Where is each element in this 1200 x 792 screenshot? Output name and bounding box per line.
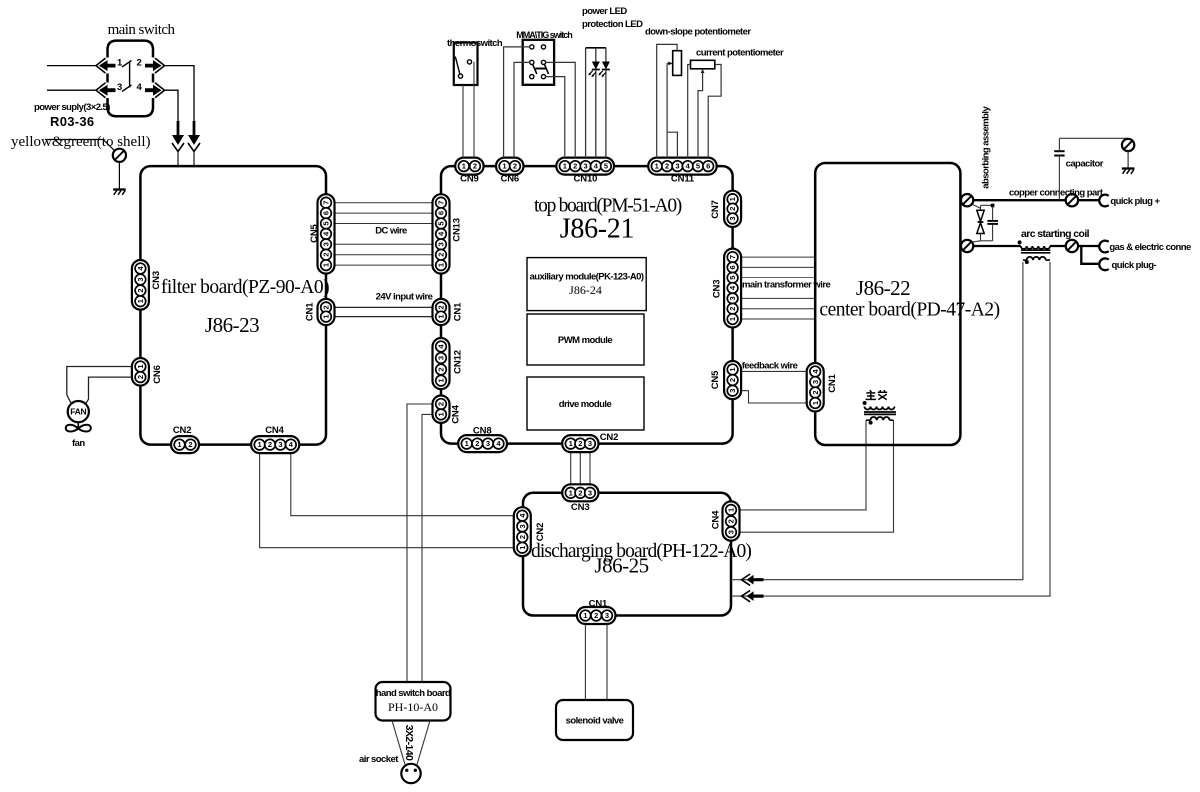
svg-text:CN8: CN8 — [473, 426, 492, 437]
svg-text:absorbing assembly: absorbing assembly — [981, 106, 992, 189]
svg-text:FAN: FAN — [70, 407, 86, 417]
wire branch to quick plug - — [1081, 246, 1100, 264]
PWM module — [527, 314, 644, 365]
svg-text:CN3: CN3 — [712, 280, 723, 299]
connector filter/CN2 — [171, 425, 199, 453]
wire center board to terminal T4 — [960, 245, 961, 247]
capacitor C1 — [1054, 138, 1064, 155]
cable taper to air socket — [392, 721, 430, 765]
connector top/CN3 — [712, 249, 742, 328]
ground capacitor — [1122, 169, 1135, 174]
wire arrow tails to board — [178, 151, 194, 165]
pot wiper — [701, 69, 705, 73]
svg-text:CN5: CN5 — [710, 370, 721, 389]
svg-text:arc starting coil: arc starting coil — [1021, 228, 1090, 240]
wire filter CN4 pin4 to discharging CN2 pin4 — [291, 453, 514, 516]
feedback wire 1 — [741, 370, 807, 372]
svg-text:CN6: CN6 — [501, 173, 520, 184]
svg-text:CN13: CN13 — [452, 218, 463, 242]
svg-text:2: 2 — [437, 253, 446, 257]
svg-text:CN9: CN9 — [460, 173, 479, 184]
svg-text:1: 1 — [518, 546, 527, 550]
svg-text:2: 2 — [665, 162, 669, 171]
svg-text:main transformer wire: main transformer wire — [742, 280, 830, 291]
svg-text:3: 3 — [136, 277, 145, 281]
power input arrow — [96, 83, 116, 98]
svg-text:filter board(PZ-90-A0): filter board(PZ-90-A0) — [161, 277, 329, 298]
wire CN6 pin1 to fan — [67, 367, 132, 404]
wire MMA switch to CN10 pin1 — [545, 77, 565, 158]
24V input wires — [335, 307, 433, 316]
svg-text:MMA\TIG switch: MMA\TIG switch — [516, 30, 572, 40]
connector filter/CN1 — [305, 299, 335, 325]
svg-text:copper connecting part: copper connecting part — [1009, 188, 1104, 199]
svg-text:CN2: CN2 — [600, 432, 619, 443]
protection LED D2 — [598, 48, 610, 158]
svg-text:thermoswitch: thermoswitch — [447, 38, 503, 49]
svg-text:2: 2 — [513, 162, 517, 171]
svg-text:PWM module: PWM module — [558, 335, 612, 346]
svg-text:R03-36: R03-36 — [50, 114, 94, 129]
top board J86-21 outline — [441, 166, 733, 444]
svg-text:CN2: CN2 — [173, 425, 192, 436]
svg-text:1: 1 — [177, 440, 181, 449]
connector CN10 — [556, 158, 614, 185]
svg-text:5: 5 — [728, 276, 737, 280]
svg-text:3: 3 — [728, 389, 737, 393]
svg-text:6: 6 — [706, 162, 710, 171]
svg-text:7: 7 — [437, 201, 446, 205]
connector CN11 — [648, 158, 717, 185]
svg-text:2: 2 — [437, 367, 446, 371]
connector CN12 — [433, 338, 464, 389]
terminal T2 copper connecting part — [1066, 194, 1078, 206]
svg-text:CN11: CN11 — [671, 173, 695, 184]
svg-text:3: 3 — [117, 82, 122, 93]
arrow into filter board left — [172, 121, 184, 152]
gas & electric connector symbol — [1099, 241, 1108, 253]
svg-text:yellow&green(to shell): yellow&green(to shell) — [11, 134, 151, 150]
wire to shell terminal — [45, 140, 115, 151]
svg-text:2: 2 — [268, 440, 272, 449]
svg-text:J86-24: J86-24 — [569, 283, 602, 297]
wire wiper to CN11 pin2 — [666, 63, 668, 158]
air socket — [401, 764, 420, 783]
connector filter/CN5 — [309, 194, 335, 273]
svg-text:1: 1 — [563, 162, 567, 171]
wire pot left to CN11 pin4 — [688, 65, 691, 159]
svg-text:gas & electric conne: gas & electric conne — [1109, 242, 1191, 253]
svg-text:CN4: CN4 — [451, 404, 462, 423]
svg-text:2: 2 — [728, 207, 737, 211]
fan propeller — [66, 422, 91, 431]
svg-text:auxiliary module(PK-123-A0): auxiliary module(PK-123-A0) — [530, 272, 644, 283]
connector disch/CN2 — [514, 507, 546, 556]
wire rail to CN10 pin3 — [585, 48, 587, 158]
svg-text:3: 3 — [605, 611, 609, 620]
svg-text:1: 1 — [437, 263, 446, 267]
svg-text:current potentiometer: current potentiometer — [696, 48, 784, 59]
arc coil secondary — [1023, 257, 1050, 264]
wire CN6 pin2 to fan — [86, 377, 132, 404]
svg-text:2: 2 — [322, 253, 331, 257]
svg-text:3: 3 — [437, 356, 446, 360]
connector disch/CN1 — [577, 598, 616, 624]
svg-text:1: 1 — [569, 439, 573, 448]
svg-text:PH-10-A0: PH-10-A0 — [388, 700, 438, 714]
auxiliary module J86-24 — [527, 258, 646, 311]
svg-text:3: 3 — [588, 439, 592, 448]
svg-text:CN4: CN4 — [265, 425, 284, 436]
wire filter CN4 pin1 to discharging CN2 pin1 — [260, 453, 514, 548]
switch output arrow — [145, 58, 165, 73]
svg-text:air socket: air socket — [359, 754, 399, 765]
svg-text:main switch: main switch — [108, 22, 176, 38]
svg-text:2: 2 — [727, 519, 736, 523]
main switch contacts — [122, 61, 132, 92]
svg-text:2: 2 — [573, 162, 577, 171]
svg-text:1: 1 — [465, 439, 469, 448]
svg-text:2: 2 — [475, 439, 479, 448]
connector CN7 — [710, 191, 741, 227]
svg-text:6: 6 — [437, 211, 446, 215]
switch output arrow — [145, 83, 165, 98]
shell terminal — [113, 149, 126, 162]
wire switch out row1 — [163, 66, 194, 121]
wire discharging CN4 pin1 to transformer — [740, 420, 866, 510]
absorbing assembly capacitor branch — [973, 204, 999, 242]
terminal T4 — [961, 240, 973, 252]
wire power input — [47, 65, 97, 67]
svg-text:3: 3 — [486, 439, 490, 448]
main switch body — [108, 41, 154, 117]
svg-text:1: 1 — [728, 367, 737, 371]
svg-text:down-slope potentiometer: down-slope potentiometer — [645, 27, 751, 38]
wire pot top to CN11 pin1 — [657, 44, 677, 158]
svg-text:fan: fan — [72, 438, 85, 449]
connector top/CN4 — [433, 396, 462, 424]
svg-text:CN12: CN12 — [453, 350, 464, 374]
connector disch/CN3 — [562, 484, 598, 513]
wire MMA switch to CN6 pin2 — [514, 62, 530, 158]
power input arrow — [96, 58, 116, 73]
svg-text:2: 2 — [136, 288, 145, 292]
svg-text:CN7: CN7 — [710, 200, 721, 219]
wire CN1 pin3 to solenoid valve — [606, 624, 608, 700]
arc coil core — [1021, 250, 1051, 253]
svg-text:2: 2 — [728, 307, 737, 311]
terminal T5 — [1066, 240, 1078, 252]
center board J86-22 outline — [815, 163, 960, 445]
wire thermoswitch to CN9 pin2 — [473, 62, 475, 158]
connector top/CN6 — [496, 158, 524, 185]
connector top/CN1 — [433, 299, 464, 325]
svg-text:J86-25: J86-25 — [594, 554, 648, 578]
discharging board J86-25 outline — [523, 493, 731, 616]
arrow into discharging board row1 — [742, 574, 764, 585]
svg-text:4: 4 — [137, 82, 143, 93]
svg-text:5: 5 — [604, 162, 608, 171]
svg-text:2: 2 — [518, 535, 527, 539]
wire pot right to CN11 pin6 — [708, 65, 721, 159]
wire MMA switch to CN10 pin2 — [545, 62, 575, 158]
svg-text:CN4: CN4 — [710, 510, 721, 529]
svg-text:2: 2 — [136, 375, 145, 379]
svg-text:6: 6 — [322, 211, 331, 215]
svg-text:1: 1 — [811, 401, 820, 405]
svg-text:7: 7 — [728, 255, 737, 259]
connector CN9 — [455, 158, 483, 185]
wire switch out row2 — [163, 90, 178, 121]
wire arc coil secondary left to discharging board — [733, 262, 1023, 580]
svg-text:power suply(3×2.5): power suply(3×2.5) — [34, 102, 110, 113]
svg-text:1: 1 — [322, 263, 331, 267]
wire MMA switch to CN6 pin1 — [504, 47, 530, 158]
power LED / protection LED labels — [582, 6, 643, 30]
main transformer wire label — [742, 278, 831, 291]
arrow into filter board right — [188, 121, 200, 152]
svg-text:5: 5 — [437, 221, 446, 225]
svg-text:3: 3 — [588, 488, 592, 497]
wire capacitor to T3 — [1059, 137, 1128, 139]
svg-text:CN10: CN10 — [574, 173, 598, 184]
svg-text:1: 1 — [655, 162, 659, 171]
svg-text:2: 2 — [811, 390, 820, 394]
wire center board to terminal T1 — [960, 199, 961, 201]
svg-text:3: 3 — [727, 530, 736, 534]
svg-text:2: 2 — [437, 305, 446, 309]
feedback wire 2 — [741, 391, 807, 403]
wire shell to ground — [118, 162, 120, 189]
svg-text:DC wire: DC wire — [375, 226, 407, 237]
solenoid valve outline — [556, 700, 633, 740]
svg-text:1: 1 — [136, 364, 145, 368]
svg-text:2: 2 — [473, 162, 477, 171]
arrow into discharging board row2 — [742, 590, 764, 601]
main switch terminal numbers — [117, 58, 143, 94]
svg-text:J86-21: J86-21 — [560, 214, 634, 245]
svg-text:2: 2 — [728, 378, 737, 382]
svg-text:3: 3 — [584, 162, 588, 171]
MMA TIG switch body — [523, 40, 554, 85]
down-slope potentiometer RP1 — [673, 51, 682, 76]
absorbing assembly TVS branch — [973, 205, 985, 241]
svg-text:3: 3 — [728, 296, 737, 300]
main transformer label (Chinese zhu bian) — [866, 390, 888, 400]
svg-text:2: 2 — [578, 488, 582, 497]
connector filter/CN4 — [251, 425, 299, 453]
svg-text:1: 1 — [728, 197, 737, 201]
wire top CN4 pin1 to hand switch board — [422, 414, 433, 682]
capacitor branch wire — [1058, 156, 1060, 200]
svg-text:2: 2 — [137, 58, 142, 69]
svg-text:feedback wire: feedback wire — [742, 361, 798, 372]
svg-text:2: 2 — [188, 440, 192, 449]
svg-text:3: 3 — [518, 524, 527, 528]
connector CN8 — [458, 426, 507, 453]
svg-text:J86-23: J86-23 — [205, 313, 259, 337]
svg-text:J86-22: J86-22 — [856, 276, 910, 300]
wire power input — [47, 89, 97, 91]
quick plug + symbol — [1099, 195, 1108, 207]
quick plug - symbol — [1099, 258, 1108, 270]
svg-text:3: 3 — [811, 380, 820, 384]
svg-text:capacitor: capacitor — [1066, 159, 1104, 170]
svg-text:2: 2 — [578, 439, 582, 448]
connector CN13 — [433, 194, 463, 273]
svg-text:CN3: CN3 — [151, 271, 162, 290]
svg-text:1: 1 — [583, 611, 587, 620]
LED rail wire — [586, 47, 606, 49]
svg-text:1: 1 — [437, 379, 446, 383]
wire wiper to CN11 pin5 — [698, 70, 703, 158]
wire T3 to ground — [1127, 151, 1129, 168]
svg-text:3: 3 — [278, 440, 282, 449]
svg-text:1: 1 — [728, 317, 737, 321]
svg-text:1: 1 — [258, 440, 262, 449]
svg-text:6: 6 — [728, 265, 737, 269]
svg-text:power LED: power LED — [582, 6, 627, 17]
svg-text:center board(PD-47-A2): center board(PD-47-A2) — [819, 300, 999, 321]
svg-text:CN1: CN1 — [589, 598, 608, 609]
svg-text:CN1: CN1 — [305, 302, 316, 321]
svg-text:1: 1 — [437, 412, 446, 416]
svg-text:3: 3 — [728, 216, 737, 220]
svg-text:quick plug-: quick plug- — [1112, 260, 1157, 271]
wire discharging CN4 pin3 to transformer — [740, 420, 894, 532]
svg-text:1: 1 — [136, 299, 145, 303]
wire CN1 pin1 to solenoid valve — [584, 624, 586, 700]
wires CN2 to CN3 — [571, 452, 590, 484]
wire wiper branch to CN11 pin3 — [667, 132, 677, 158]
connector disch/CN4 — [710, 501, 739, 540]
connector top/CN5 — [710, 361, 741, 399]
pot wiper arrow — [667, 62, 673, 66]
terminal T3 — [1122, 139, 1134, 151]
connector center/CN1 — [807, 363, 838, 412]
svg-text:2: 2 — [437, 402, 446, 406]
svg-text:2: 2 — [594, 611, 598, 620]
svg-text:CN6: CN6 — [152, 365, 163, 384]
wire thermoswitch to CN9 pin1 — [462, 85, 464, 158]
svg-text:3: 3 — [437, 242, 446, 246]
svg-text:2: 2 — [322, 305, 331, 309]
wire arc coil secondary right to discharging board — [733, 262, 1051, 596]
terminal T1 — [961, 194, 973, 206]
svg-text:hand switch board: hand switch board — [376, 688, 451, 699]
svg-text:protection LED: protection LED — [582, 19, 643, 30]
svg-text:3: 3 — [675, 162, 679, 171]
svg-text:1: 1 — [569, 488, 573, 497]
svg-text:CN1: CN1 — [453, 302, 464, 321]
svg-text:drive module: drive module — [559, 399, 612, 410]
ground shell — [113, 190, 126, 195]
wire T1 to quick plug + — [973, 199, 1100, 201]
fan motor FAN — [68, 401, 89, 422]
main transformer T1 — [863, 401, 896, 425]
connector filter/CN6 — [132, 358, 163, 386]
hand switch board outline — [376, 682, 451, 721]
svg-text:5: 5 — [696, 162, 700, 171]
svg-text:solenoid valve: solenoid valve — [566, 716, 624, 727]
connector CN3 — [132, 260, 162, 310]
svg-text:CN1: CN1 — [827, 373, 838, 392]
wire top CN4 pin2 to hand switch board — [407, 404, 433, 682]
current potentiometer RP2 — [691, 60, 715, 69]
main transformer wires CN3-center board — [741, 257, 815, 319]
svg-text:3X2-140: 3X2-140 — [403, 725, 415, 761]
wire T4 to arc coil — [973, 245, 1021, 247]
svg-text:1: 1 — [322, 315, 331, 319]
svg-text:1: 1 — [462, 162, 466, 171]
drive module — [527, 377, 644, 430]
svg-text:CN3: CN3 — [571, 502, 590, 513]
DC wire bundle CN5-CN13 — [335, 203, 433, 265]
svg-text:3: 3 — [322, 242, 331, 246]
svg-text:7: 7 — [322, 201, 331, 205]
svg-text:1: 1 — [437, 315, 446, 319]
thermoswitch body — [454, 43, 478, 86]
svg-text:24V input wire: 24V input wire — [376, 292, 433, 303]
svg-text:1: 1 — [727, 508, 736, 512]
svg-text:5: 5 — [322, 221, 331, 225]
svg-text:quick plug +: quick plug + — [1110, 196, 1160, 207]
svg-text:CN5: CN5 — [309, 223, 320, 242]
filter board J86-23 outline — [140, 166, 326, 445]
svg-text:1: 1 — [502, 162, 506, 171]
power LED D1 — [588, 48, 600, 158]
svg-text:CN2: CN2 — [535, 523, 546, 542]
connector top/CN2 — [562, 435, 598, 452]
arc starting coil primary — [1018, 240, 1100, 249]
